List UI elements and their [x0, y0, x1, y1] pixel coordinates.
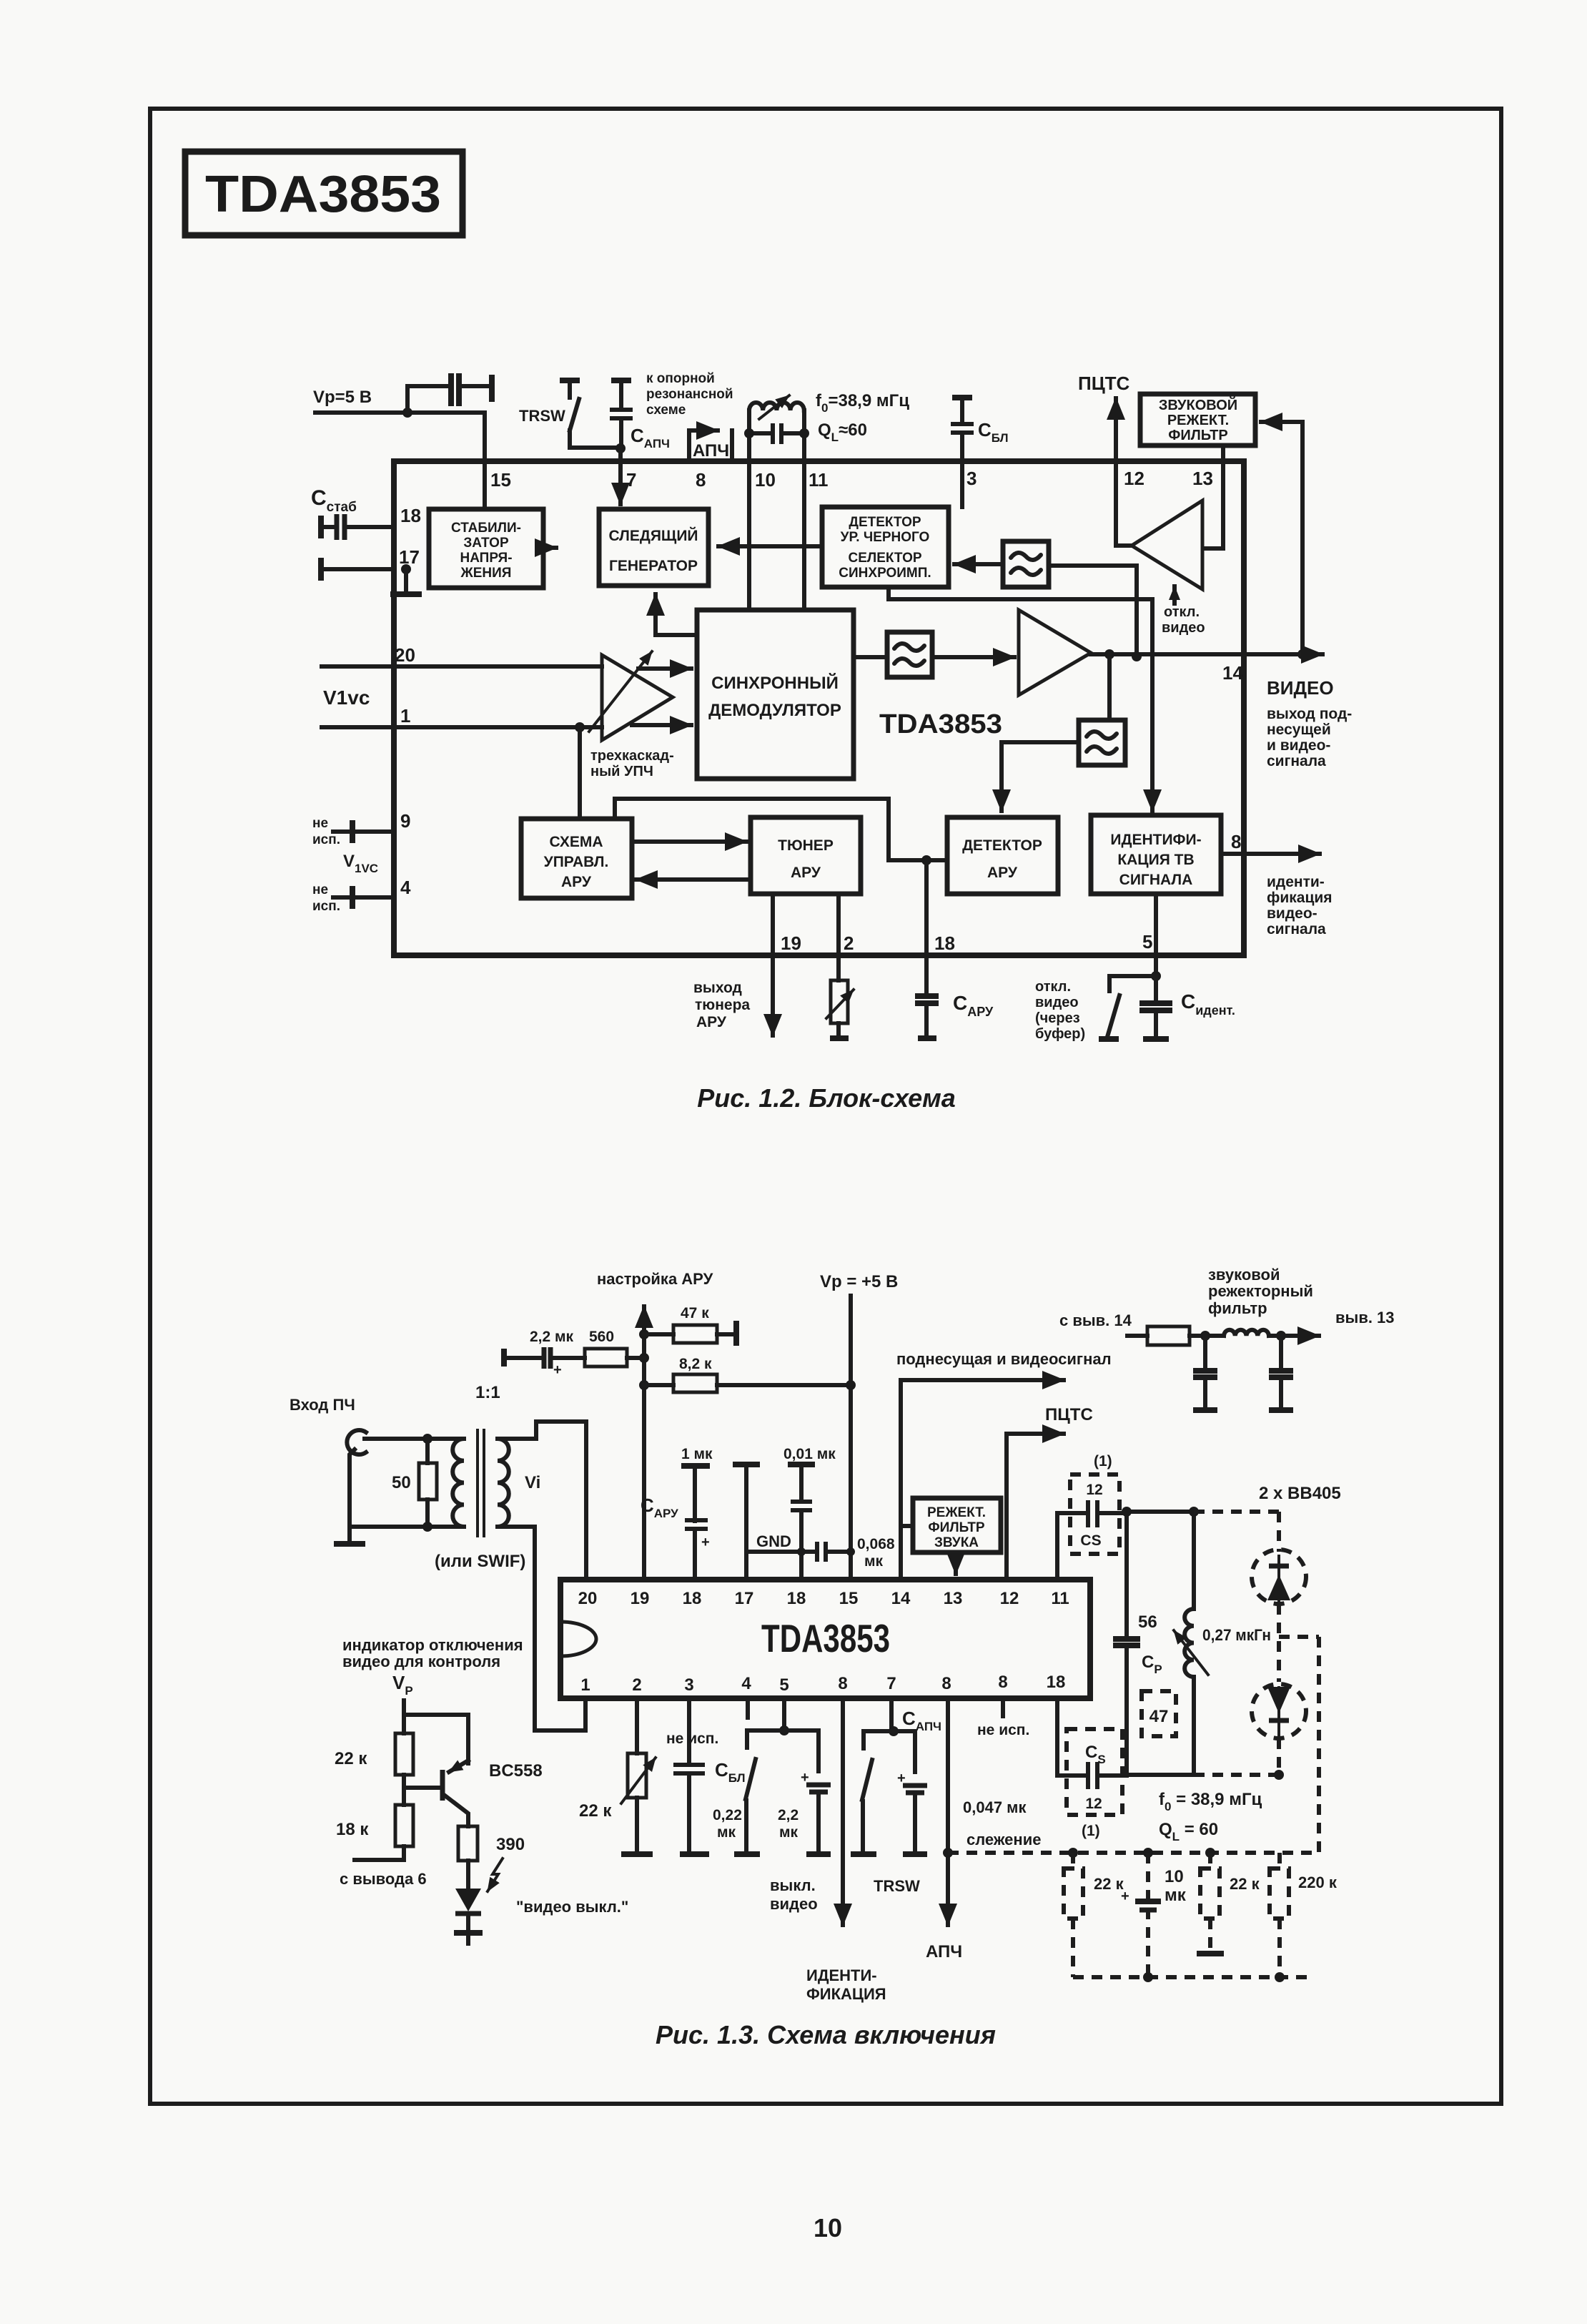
svg-text:17: 17 [735, 1589, 754, 1608]
tank top link [1127, 1510, 1194, 1514]
svg-text:8,2 к: 8,2 к [679, 1356, 712, 1372]
pin 13 wire to video amp [1204, 445, 1223, 548]
svg-text:ВИДЕО: ВИДЕО [1267, 677, 1334, 699]
pin 8 identification output arrow [1221, 852, 1320, 856]
junction feedback [1297, 649, 1307, 659]
svg-text:фикация: фикация [1267, 890, 1333, 906]
svg-text:18 к: 18 к [336, 1820, 369, 1839]
tracking dashed bus [948, 1851, 1319, 1855]
sound notch filter box [1140, 394, 1255, 445]
video output line pin 14 [1091, 652, 1322, 656]
resistor 50 [392, 1439, 437, 1527]
CS capacitor top pin 11 [1057, 1453, 1127, 1580]
svg-text:+: + [1121, 1889, 1129, 1904]
svg-text:Vp=5 В: Vp=5 В [313, 388, 372, 407]
junction 8.2k [639, 1380, 649, 1390]
title box TDA3853 [185, 152, 463, 235]
svg-text:18: 18 [1047, 1673, 1066, 1692]
arrow tuner to AGC control [636, 877, 751, 882]
PCTS output arrow [1114, 398, 1118, 461]
svg-text:7: 7 [886, 1674, 896, 1693]
svg-text:20: 20 [395, 644, 415, 666]
svg-text:CS: CS [1080, 1532, 1101, 1549]
svg-text:АРУ: АРУ [561, 874, 592, 890]
svg-text:несущей: несущей [1267, 722, 1331, 738]
svg-text:2: 2 [632, 1675, 641, 1695]
pin 5 video off switch and 2.2uF [734, 1698, 831, 1913]
svg-text:TDA3853: TDA3853 [761, 1616, 890, 1660]
resistor 22k dashed 2 with ground [1197, 1853, 1260, 1954]
svg-text:ДЕТЕКТОР: ДЕТЕКТОР [849, 515, 921, 530]
svg-text:1 мк: 1 мк [681, 1446, 713, 1462]
svg-text:мк: мк [864, 1553, 884, 1570]
svg-text:видео: видео [1035, 995, 1079, 1010]
svg-text:47: 47 [1150, 1707, 1169, 1726]
svg-text:СЕЛЕКТОР: СЕЛЕКТОР [848, 551, 921, 566]
svg-text:ТЮНЕР: ТЮНЕР [778, 837, 834, 854]
subcarrier video output pin 14 [896, 1350, 1112, 1580]
capacitor 0.01uF pin 16 [783, 1446, 836, 1580]
resistor 8.2k [644, 1356, 851, 1392]
pin 6 identification arrow [806, 1698, 886, 2003]
svg-text:мк: мк [717, 1824, 736, 1841]
notch subcircuit capacitor 1 [1193, 1336, 1217, 1410]
svg-text:режекторный: режекторный [1208, 1282, 1313, 1300]
svg-text:Vp = +5 В: Vp = +5 В [820, 1272, 898, 1291]
svg-text:звуковой: звуковой [1208, 1266, 1280, 1284]
C_BL 0.22uF pin 3 [673, 1698, 746, 1854]
PCTS output pin 12 [1007, 1405, 1093, 1580]
svg-text:12: 12 [1124, 468, 1144, 489]
svg-text:0,01 мк: 0,01 мк [783, 1446, 836, 1462]
svg-text:откл.: откл. [1164, 604, 1200, 620]
svg-text:выкл.: выкл. [770, 1876, 816, 1894]
svg-text:18: 18 [683, 1589, 702, 1608]
svg-text:12: 12 [1085, 1796, 1102, 1812]
svg-text:V1vc: V1vc [323, 686, 370, 709]
tuner AGC box [751, 817, 861, 894]
pin 17 line [321, 558, 394, 581]
svg-text:видео: видео [770, 1895, 818, 1913]
svg-text:18: 18 [934, 932, 955, 954]
varactor diode 1 [1252, 1512, 1306, 1604]
AGC control box [521, 819, 632, 898]
svg-text:СИНХРОННЫЙ: СИНХРОННЫЙ [711, 673, 839, 693]
wire AGC control top to AGC detector [615, 799, 947, 860]
svg-text:5: 5 [779, 1675, 788, 1695]
svg-text:10: 10 [1165, 1867, 1184, 1886]
svg-text:BC558: BC558 [489, 1761, 543, 1781]
GND terminal pin 17 [733, 1464, 816, 1580]
svg-text:1: 1 [580, 1675, 590, 1695]
svg-text:15: 15 [839, 1589, 859, 1608]
svg-text:ЗВУКОВОЙ: ЗВУКОВОЙ [1159, 396, 1237, 413]
svg-text:не: не [312, 816, 328, 831]
svg-text:12: 12 [1000, 1589, 1019, 1608]
svg-text:не исп.: не исп. [666, 1730, 718, 1747]
pin 2 varistor [826, 894, 854, 1038]
svg-text:"видео выкл.": "видео выкл." [516, 1898, 628, 1916]
svg-text:сигнала: сигнала [1267, 753, 1326, 769]
svg-text:фильтр: фильтр [1208, 1299, 1267, 1317]
svg-text:иденти-: иденти- [1267, 874, 1325, 890]
svg-text:18: 18 [787, 1589, 806, 1608]
svg-text:TRSW: TRSW [874, 1877, 920, 1895]
generator input arrow from black level detector [718, 544, 822, 548]
svg-text:3: 3 [966, 468, 977, 489]
synchronous demodulator box [697, 610, 854, 779]
svg-text:2,2: 2,2 [778, 1807, 799, 1823]
pin 17 ground stub [390, 564, 422, 594]
svg-text:ФИЛЬТР: ФИЛЬТР [928, 1520, 985, 1535]
pin 20 input line [322, 664, 602, 669]
resistor 390 [458, 1826, 525, 1888]
input bottom wire [350, 1449, 464, 1527]
not used pin 9 [977, 1698, 1029, 1738]
svg-text:Рис. 1.2. Блок-схема: Рис. 1.2. Блок-схема [697, 1083, 956, 1113]
svg-text:8: 8 [998, 1673, 1007, 1692]
svg-text:3: 3 [684, 1675, 693, 1695]
svg-text:настройка АРУ: настройка АРУ [597, 1270, 713, 1288]
wire demod to filter [854, 655, 887, 659]
notch subcircuit inductor [1200, 1330, 1319, 1341]
svg-text:видео-: видео- [1267, 905, 1317, 922]
video disable switch via buffer [1099, 976, 1156, 1039]
svg-text:с вывода 6: с вывода 6 [340, 1870, 427, 1888]
varactor diode 2 [1252, 1684, 1306, 1775]
svg-text:8: 8 [941, 1674, 951, 1693]
stabilizer output arrow [544, 546, 556, 550]
junction pin 18 [921, 855, 931, 865]
pin 1 input line [322, 725, 602, 729]
svg-text:НАПРЯ-: НАПРЯ- [460, 551, 512, 566]
svg-text:10: 10 [755, 469, 776, 491]
pins 10/11 internal wires to demodulator [749, 461, 804, 610]
sound notch filter box (app) [913, 1498, 1001, 1552]
not used pin 4 [312, 877, 411, 914]
svg-text:8: 8 [838, 1674, 847, 1693]
svg-text:ПЦТС: ПЦТС [1078, 373, 1130, 394]
svg-text:КАЦИЯ ТВ: КАЦИЯ ТВ [1117, 852, 1194, 868]
svg-text:ПЦТС: ПЦТС [1045, 1405, 1093, 1424]
svg-text:АПЧ: АПЧ [693, 441, 729, 461]
svg-text:СЛЕДЯЩИЙ: СЛЕДЯЩИЙ [608, 527, 698, 544]
IC boundary TDA3853 [394, 461, 1244, 955]
secondary bottom lead to pin 1 [498, 1527, 585, 1730]
dashed link tank to varactors bottom [1194, 1773, 1279, 1777]
dashed wire between varactors [1277, 1604, 1281, 1682]
svg-text:не исп.: не исп. [977, 1722, 1029, 1738]
tank circuit left branch C_P [1113, 1512, 1162, 1775]
svg-text:5: 5 [1142, 931, 1152, 952]
pin 5 wire [1154, 894, 1158, 976]
page border frame [150, 109, 1501, 2104]
svg-text:0,27 мкГн: 0,27 мкГн [1202, 1626, 1271, 1644]
LED video off [454, 1858, 503, 1944]
video disable arrow [1172, 586, 1177, 604]
wire Vp rail [315, 410, 485, 415]
svg-text:АРУ: АРУ [791, 865, 821, 881]
svg-text:2 x BB405: 2 x BB405 [1259, 1484, 1341, 1503]
switch TRSW [560, 380, 615, 448]
svg-text:АПЧ: АПЧ [926, 1942, 962, 1961]
svg-text:(1): (1) [1094, 1453, 1112, 1469]
svg-text:Рис. 1.3. Схема включения: Рис. 1.3. Схема включения [656, 2020, 996, 2049]
svg-text:выв. 13: выв. 13 [1335, 1309, 1395, 1326]
svg-text:0,22: 0,22 [713, 1807, 742, 1823]
bottom dashed bus [1073, 1975, 1308, 1979]
resistor 220k dashed [1270, 1853, 1338, 1977]
svg-text:1: 1 [400, 705, 410, 727]
svg-text:4: 4 [741, 1674, 751, 1693]
optional capacitor 47 dashed [1142, 1691, 1176, 1736]
filter to amp2 arrow [932, 655, 1014, 659]
capacitor 2.2uF [504, 1329, 585, 1378]
svg-text:14: 14 [891, 1589, 911, 1608]
gain control diagonal arrow [589, 651, 652, 732]
svg-text:0,068: 0,068 [857, 1536, 895, 1552]
black level detector / sync selector box [822, 507, 949, 587]
svg-text:20: 20 [578, 1589, 598, 1608]
junction 47k [639, 1329, 649, 1339]
svg-text:17: 17 [399, 546, 420, 568]
junction filter3/video [1132, 651, 1142, 661]
svg-text:с выв. 14: с выв. 14 [1059, 1311, 1132, 1329]
junction Vp rail [402, 408, 412, 418]
svg-text:Вход ПЧ: Вход ПЧ [290, 1396, 355, 1414]
svg-text:АРУ: АРУ [696, 1014, 727, 1030]
svg-text:индикатор отключения: индикатор отключения [342, 1636, 523, 1654]
svg-text:резонансной: резонансной [646, 387, 733, 402]
svg-text:СИГНАЛА: СИГНАЛА [1119, 872, 1193, 888]
svg-text:22 к: 22 к [335, 1749, 367, 1768]
svg-text:2: 2 [844, 932, 854, 954]
resistor 22k dashed 1 [1064, 1853, 1124, 1977]
resistor 47k [644, 1305, 736, 1346]
svg-text:Vi: Vi [525, 1473, 540, 1492]
Vp wire pin 15 [849, 1296, 853, 1580]
svg-text:560: 560 [589, 1329, 614, 1345]
svg-text:ИДЕНТИФИ-: ИДЕНТИФИ- [1110, 832, 1201, 848]
svg-text:(через: (через [1035, 1010, 1080, 1026]
notch subcircuit series resistor [1127, 1326, 1224, 1345]
C_ARU 1uF capacitor pin 18 [641, 1446, 713, 1580]
not used pin 4 [666, 1698, 748, 1747]
svg-text:56: 56 [1138, 1612, 1157, 1632]
svg-text:видео: видео [1162, 620, 1205, 636]
amp output arrows to demodulator [638, 666, 691, 671]
svg-text:ИДЕНТИ-: ИДЕНТИ- [806, 1966, 877, 1984]
pin 2 varistor (app) [579, 1698, 656, 1854]
junction 560 [639, 1353, 649, 1363]
svg-text:слежение: слежение [966, 1831, 1041, 1848]
svg-text:22 к: 22 к [1230, 1875, 1260, 1893]
svg-text:РЕЖЕКТ.: РЕЖЕКТ. [1167, 413, 1229, 428]
pin 18 capacitor [321, 514, 394, 540]
resistor 22k base divider [335, 1715, 413, 1788]
AFC output arrow [689, 430, 718, 461]
svg-text:14: 14 [1222, 662, 1243, 684]
svg-text:исп.: исп. [312, 899, 340, 914]
capacitor C_BL [951, 398, 974, 461]
AGC detector box [947, 817, 1058, 894]
bottom pin numbers [580, 1673, 1065, 1695]
svg-text:ный УПЧ: ный УПЧ [590, 764, 653, 779]
pin 18 wire and C_ARU capacitor [915, 860, 939, 1038]
svg-text:(1): (1) [1082, 1823, 1100, 1839]
pin 3 wire [960, 461, 964, 507]
svg-text:(или SWIF): (или SWIF) [435, 1552, 525, 1571]
svg-text:и видео-: и видео- [1267, 737, 1330, 754]
svg-text:1:1: 1:1 [475, 1383, 500, 1402]
svg-text:47 к: 47 к [681, 1305, 709, 1321]
svg-text:АРУ: АРУ [987, 865, 1018, 881]
svg-text:7: 7 [626, 469, 636, 491]
svg-text:ЖЕНИЯ: ЖЕНИЯ [460, 566, 512, 581]
svg-text:УПРАВЛ.: УПРАВЛ. [544, 854, 609, 870]
svg-text:СТАБИЛИ-: СТАБИЛИ- [451, 521, 521, 536]
svg-text:ЗВУКА: ЗВУКА [934, 1535, 979, 1550]
svg-text:4: 4 [400, 877, 411, 898]
svg-text:поднесущая и видеосигнал: поднесущая и видеосигнал [896, 1350, 1112, 1368]
junction 50 ohm bottom [422, 1522, 432, 1532]
svg-text:схеме: схеме [646, 403, 686, 418]
svg-text:13: 13 [944, 1589, 963, 1608]
pin 8 AFC arrow [926, 1698, 1041, 1961]
svg-text:2,2 мк: 2,2 мк [530, 1329, 574, 1345]
IF amplifier triangle [602, 655, 673, 740]
svg-text:мк: мк [779, 1824, 799, 1841]
svg-text:РЕЖЕКТ.: РЕЖЕКТ. [927, 1505, 986, 1520]
svg-text:УР. ЧЕРНОГО: УР. ЧЕРНОГО [841, 530, 930, 545]
svg-text:сигнала: сигнала [1267, 921, 1326, 937]
Vp feed wire [402, 1700, 406, 1715]
svg-text:12: 12 [1086, 1482, 1102, 1498]
junction Vp 8.2k [846, 1380, 856, 1390]
svg-text:ЗАТОР: ЗАТОР [463, 536, 509, 551]
svg-text:8: 8 [696, 469, 706, 491]
svg-text:TDA3853: TDA3853 [879, 709, 1002, 739]
capacitor C_APCH [610, 380, 633, 447]
svg-text:ФИКАЦИЯ: ФИКАЦИЯ [806, 1985, 886, 2003]
svg-text:11: 11 [1051, 1589, 1069, 1608]
svg-text:+: + [553, 1362, 562, 1378]
filter3 arrow into selector [954, 562, 1003, 566]
tank bottom link [1127, 1773, 1194, 1777]
capacitor 10uF dashed branch [1121, 1853, 1187, 1977]
junction 50 ohm top [422, 1434, 432, 1444]
svg-text:исп.: исп. [312, 832, 340, 847]
selector bottom wire to identification [889, 587, 1152, 811]
svg-text:50: 50 [392, 1473, 411, 1492]
wire to filter2 [1107, 654, 1112, 720]
junction C_APCH node [615, 443, 626, 453]
svg-text:220 к: 220 к [1298, 1874, 1338, 1891]
svg-text:18: 18 [400, 505, 421, 526]
svg-text:0,047 мк: 0,047 мк [963, 1798, 1027, 1816]
not used pin 9 [312, 810, 410, 847]
CS capacitor bottom pin 10 [1057, 1698, 1127, 1839]
svg-text:22 к: 22 к [579, 1801, 612, 1821]
svg-text:8: 8 [1231, 831, 1241, 852]
input ground [334, 1527, 365, 1544]
feedback wire video out to notch filter [1261, 422, 1302, 654]
generator bottom arrow from demodulator [656, 594, 696, 635]
TV signal identification box [1091, 815, 1221, 894]
svg-text:ДЕМОДУЛЯТОР: ДЕМОДУЛЯТОР [708, 701, 841, 720]
pin 7 wire arrow into tracking generator [618, 448, 623, 504]
svg-text:выход: выход [693, 980, 742, 996]
svg-text:GND: GND [756, 1532, 791, 1550]
filter2 to AGC detector arrow [1002, 742, 1079, 811]
svg-text:не: не [312, 882, 328, 897]
notch box arrow into pin 13 [954, 1552, 958, 1574]
filter3 right lead down to video line [1049, 566, 1137, 656]
secondary top lead to pin 20 [498, 1422, 586, 1580]
svg-text:видео для контроля: видео для контроля [342, 1653, 500, 1670]
IF input connector [347, 1430, 366, 1454]
filter box 3 to sync selector [1003, 541, 1049, 587]
svg-text:буфер): буфер) [1035, 1026, 1085, 1042]
svg-text:19: 19 [631, 1589, 650, 1608]
svg-text:СИНХРОИМП.: СИНХРОИМП. [839, 566, 931, 581]
dashed link tank to varactors top [1194, 1510, 1279, 1514]
IC package TDA3853 [560, 1580, 1090, 1698]
svg-text:трехкаскад-: трехкаскад- [590, 748, 674, 764]
svg-text:ДЕТЕКТОР: ДЕТЕКТОР [962, 837, 1042, 854]
svg-text:TRSW: TRSW [519, 407, 565, 425]
top pin numbers [578, 1589, 1069, 1608]
tank circuit right branch inductor 0.27uH [1174, 1512, 1271, 1775]
voltage stabilizer box [429, 509, 543, 588]
svg-text:13: 13 [1192, 468, 1213, 489]
svg-text:тюнера: тюнера [695, 997, 750, 1013]
pin 7 TRSW switch and C_APCH [851, 1698, 941, 1895]
capacitor 0.068uF [817, 1536, 895, 1570]
capacitor Vp bypass [407, 373, 492, 413]
svg-text:+: + [701, 1535, 710, 1550]
C_ident capacitor [1139, 976, 1172, 1039]
resistor 560 [585, 1329, 644, 1367]
pin 19 tuner AGC output arrow [771, 894, 775, 1035]
svg-text:откл.: откл. [1035, 979, 1071, 995]
junction to filter2 [1104, 649, 1114, 659]
filter box 2 [1079, 720, 1125, 765]
emitter feed wire [404, 1715, 468, 1763]
notch subcircuit capacitor 2 [1269, 1336, 1293, 1410]
input top wire [365, 1437, 464, 1441]
svg-text:22 к: 22 к [1094, 1875, 1124, 1893]
dashed branch to right loop [1279, 1637, 1319, 1852]
pin1 branch down to AGC control [575, 722, 585, 819]
resistor 18k [336, 1788, 413, 1860]
transformer 1:1 [435, 1383, 540, 1571]
video output amp triangle [1019, 610, 1091, 695]
tracking generator box [599, 509, 708, 586]
svg-text:11: 11 [809, 469, 829, 491]
svg-text:15: 15 [490, 469, 511, 491]
AFC box right edge [730, 430, 734, 461]
svg-text:мк: мк [1165, 1886, 1187, 1905]
tank circuit pins 10-11 [744, 395, 809, 461]
svg-text:9: 9 [400, 810, 410, 832]
svg-text:10: 10 [814, 2213, 842, 2242]
pin 12 internal wire to amp [1116, 461, 1132, 546]
filter box demod output [887, 632, 932, 677]
transistor BC558 [443, 1761, 543, 1826]
svg-text:TDA3853: TDA3853 [205, 166, 441, 223]
svg-text:выход под-: выход под- [1267, 706, 1352, 722]
